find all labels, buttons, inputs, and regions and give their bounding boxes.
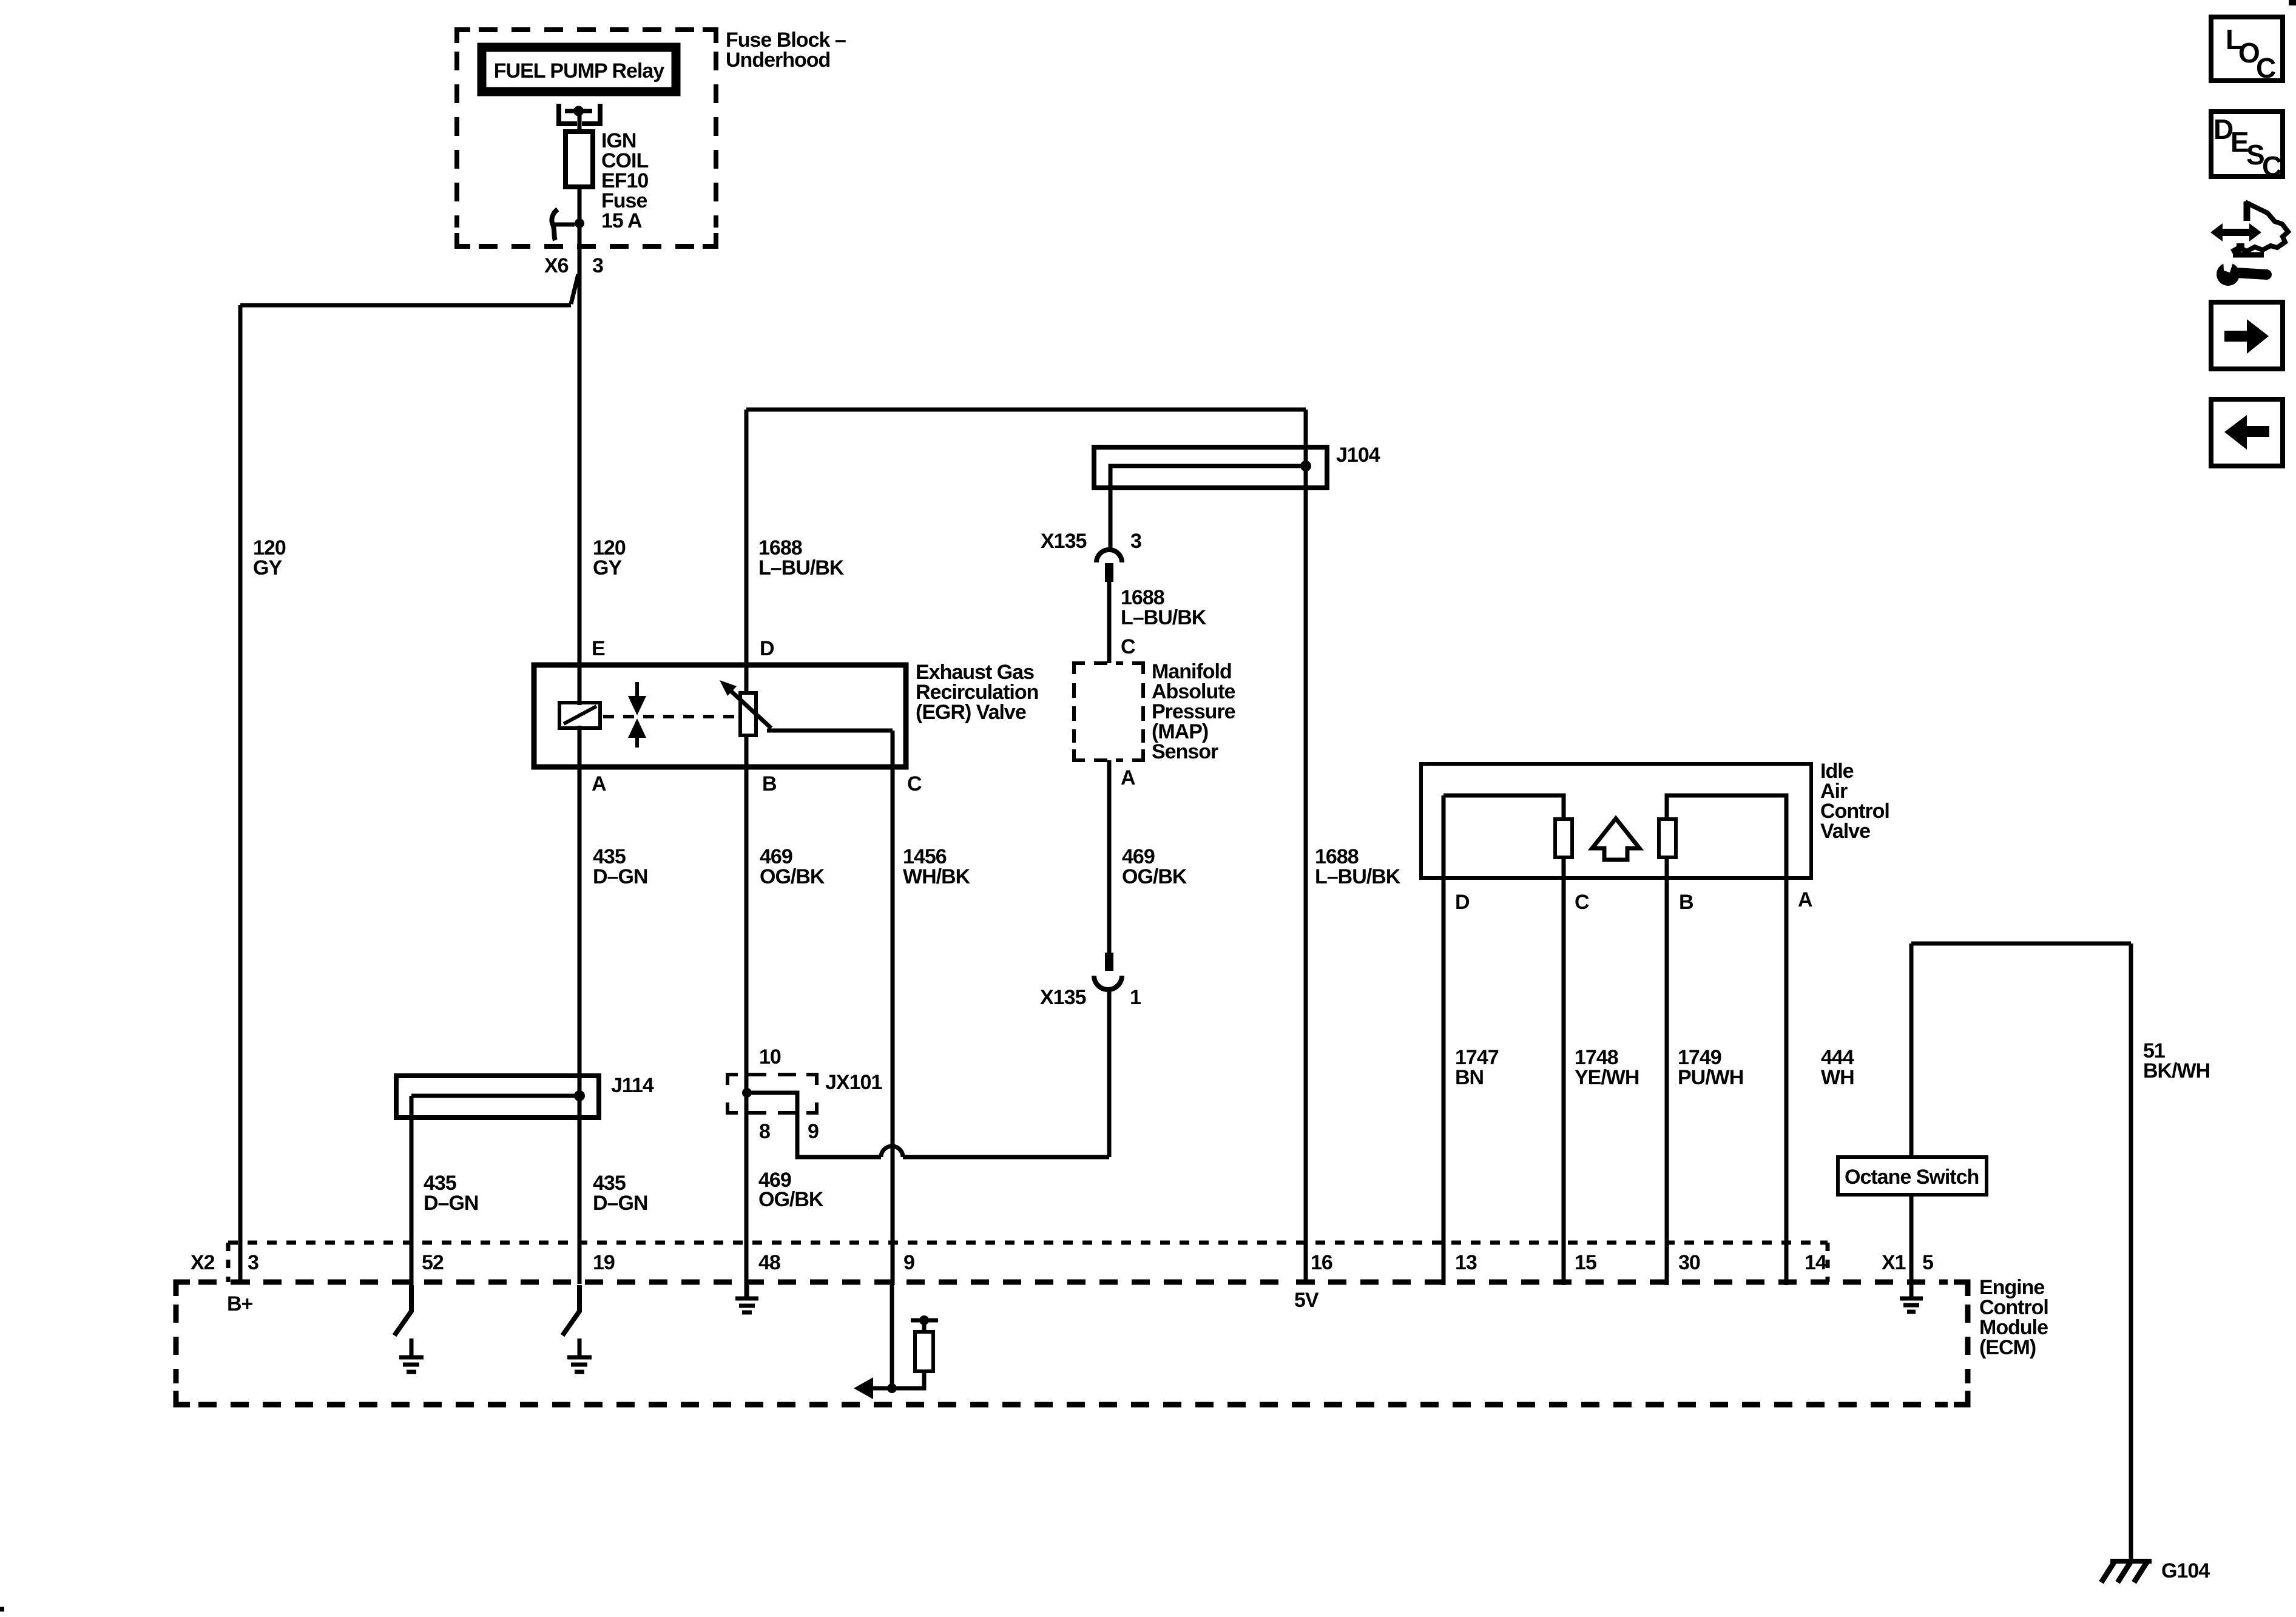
svg-text:(ECM): (ECM) <box>1979 1336 2036 1359</box>
svg-text:D: D <box>760 637 774 660</box>
svg-text:52: 52 <box>422 1251 444 1274</box>
svg-text:3: 3 <box>248 1251 258 1274</box>
svg-text:48: 48 <box>758 1251 780 1274</box>
svg-text:BK/WH: BK/WH <box>2143 1059 2210 1082</box>
svg-text:X135: X135 <box>1040 986 1086 1009</box>
svg-text:30: 30 <box>1678 1251 1700 1274</box>
svg-text:3: 3 <box>1130 530 1141 553</box>
svg-text:J114: J114 <box>611 1074 654 1097</box>
svg-text:1: 1 <box>1130 986 1141 1009</box>
svg-text:A: A <box>1798 888 1812 911</box>
svg-text:Valve: Valve <box>1820 820 1870 843</box>
svg-text:YE/WH: YE/WH <box>1575 1066 1639 1089</box>
svg-text:14: 14 <box>1805 1251 1827 1274</box>
svg-text:OG/BK: OG/BK <box>1122 865 1187 888</box>
svg-text:15: 15 <box>1575 1251 1596 1274</box>
svg-text:Underhood: Underhood <box>726 49 830 72</box>
svg-text:X1: X1 <box>1882 1251 1906 1274</box>
svg-text:Octane Switch: Octane Switch <box>1845 1166 1979 1189</box>
svg-text:15 A: 15 A <box>601 209 642 232</box>
svg-text:L–BU/BK: L–BU/BK <box>1121 606 1207 629</box>
svg-text:19: 19 <box>593 1251 615 1274</box>
svg-text:L–BU/BK: L–BU/BK <box>1315 865 1401 888</box>
svg-text:C: C <box>907 772 922 795</box>
svg-text:C: C <box>1121 635 1135 658</box>
svg-text:X135: X135 <box>1041 530 1086 553</box>
svg-text:A: A <box>592 772 606 795</box>
svg-text:D: D <box>1455 891 1470 914</box>
svg-text:5: 5 <box>1922 1251 1933 1274</box>
svg-text:FUEL PUMP Relay: FUEL PUMP Relay <box>494 59 664 83</box>
svg-text:B: B <box>762 772 777 795</box>
svg-text:C: C <box>1575 891 1589 914</box>
svg-text:OG/BK: OG/BK <box>760 865 825 888</box>
svg-text:G104: G104 <box>2161 1559 2210 1582</box>
svg-text:D–GN: D–GN <box>593 1192 647 1215</box>
svg-text:B: B <box>1679 891 1693 914</box>
svg-text:L–BU/BK: L–BU/BK <box>758 556 845 579</box>
svg-text:WH/BK: WH/BK <box>903 865 971 888</box>
svg-text:A: A <box>1121 766 1135 789</box>
svg-text:JX101: JX101 <box>825 1071 882 1094</box>
svg-text:X2: X2 <box>191 1251 215 1274</box>
svg-text:OG/BK: OG/BK <box>758 1188 824 1211</box>
svg-text:X6: X6 <box>544 254 569 277</box>
svg-text:5V: 5V <box>1294 1289 1319 1312</box>
svg-text:9: 9 <box>808 1120 819 1143</box>
svg-text:Sensor: Sensor <box>1152 740 1218 763</box>
svg-text:E: E <box>592 637 605 660</box>
svg-text:BN: BN <box>1455 1066 1484 1089</box>
svg-text:13: 13 <box>1455 1251 1477 1274</box>
svg-text:J104: J104 <box>1336 444 1380 467</box>
svg-text:3: 3 <box>592 254 603 277</box>
svg-text:16: 16 <box>1311 1251 1332 1274</box>
svg-text:(EGR) Valve: (EGR) Valve <box>916 701 1026 724</box>
svg-text:GY: GY <box>593 556 622 579</box>
svg-text:PU/WH: PU/WH <box>1678 1066 1743 1089</box>
svg-text:D–GN: D–GN <box>593 865 647 888</box>
svg-text:D–GN: D–GN <box>424 1192 478 1215</box>
svg-text:8: 8 <box>759 1120 770 1143</box>
svg-text:9: 9 <box>903 1251 914 1274</box>
svg-text:GY: GY <box>253 556 282 579</box>
svg-text:10: 10 <box>759 1045 781 1068</box>
svg-text:B+: B+ <box>227 1292 253 1315</box>
svg-text:WH: WH <box>1821 1066 1854 1089</box>
